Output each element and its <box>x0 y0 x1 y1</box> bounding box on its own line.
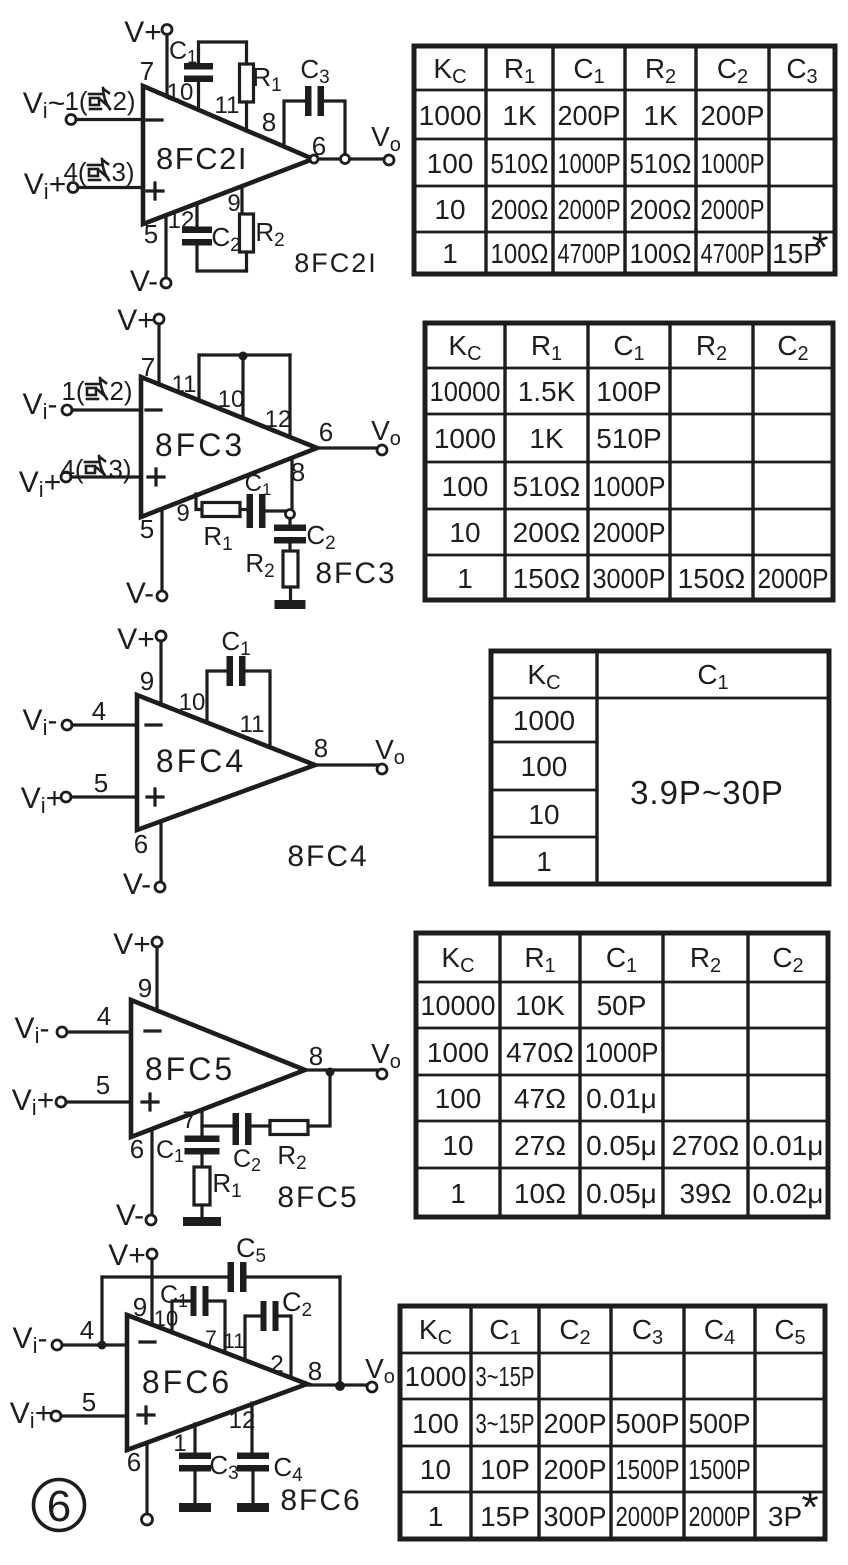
inverting input marker <box>146 723 161 726</box>
svg-text:8: 8 <box>309 1041 323 1071</box>
svg-text:1: 1 <box>442 238 458 269</box>
svg-text:3): 3) <box>108 454 131 484</box>
svg-text:4(: 4( <box>60 454 83 484</box>
ground C4 <box>237 1503 269 1512</box>
svg-text:4: 4 <box>97 1001 111 1031</box>
svg-text:4(: 4( <box>63 157 86 187</box>
Vi+ input terminal <box>68 183 78 193</box>
svg-text:8FC5: 8FC5 <box>277 1181 358 1214</box>
svg-text:Vi​-: Vi​- <box>23 704 58 740</box>
op-amp U2 8FC3 <box>141 377 317 517</box>
svg-text:0.01μ: 0.01μ <box>586 1083 657 1114</box>
svg-text:V-: V- <box>126 577 154 610</box>
svg-text:8FC3: 8FC3 <box>155 427 245 463</box>
wire Vi- to inverting input <box>72 408 141 411</box>
resistor R2 <box>283 551 298 587</box>
V- terminal <box>161 278 171 288</box>
svg-text:12: 12 <box>265 406 292 433</box>
output terminal Vo <box>384 155 394 165</box>
junction output node <box>335 1381 345 1391</box>
svg-text:5: 5 <box>140 514 154 544</box>
Vi- input terminal <box>62 405 72 415</box>
svg-text:5: 5 <box>82 1387 96 1417</box>
svg-text:2000P: 2000P <box>616 1501 680 1532</box>
svg-text:8FC5: 8FC5 <box>145 1051 235 1087</box>
capacitor C1 <box>191 1286 197 1316</box>
svg-text:200Ω: 200Ω <box>513 517 581 548</box>
wire C2-R2 bottom loop <box>197 243 247 271</box>
resistor R1 <box>240 64 254 102</box>
capacitor C2 <box>182 227 212 234</box>
svg-text:1K: 1K <box>502 100 537 131</box>
Vi+ input terminal <box>56 1097 66 1107</box>
svg-text:1000: 1000 <box>427 1037 489 1068</box>
wire top compensation loop <box>199 353 290 356</box>
svg-text:200P: 200P <box>544 1408 607 1439</box>
inverting input marker <box>140 1340 155 1343</box>
svg-text:1K: 1K <box>643 100 678 131</box>
svg-text:3P: 3P <box>768 1501 802 1532</box>
Vi- input terminal <box>62 720 72 730</box>
wire C2 to R2 <box>252 1124 270 1127</box>
Vi- input terminal <box>66 115 76 125</box>
svg-text:V+: V+ <box>117 304 155 337</box>
node output junction <box>341 155 350 164</box>
svg-text:Vi​-: Vi​- <box>15 1012 50 1048</box>
capacitor C1 <box>227 656 234 686</box>
non-inverting input marker <box>147 183 163 199</box>
svg-text:9: 9 <box>138 973 152 1003</box>
svg-text:9: 9 <box>133 1292 147 1322</box>
wire pin 6 to V- <box>150 1129 153 1215</box>
svg-text:Vi​-: Vi​- <box>13 1322 48 1358</box>
svg-text:8: 8 <box>314 733 328 763</box>
svg-text:470Ω: 470Ω <box>506 1037 574 1068</box>
svg-text:10: 10 <box>167 79 194 106</box>
svg-text:8FC6: 8FC6 <box>280 1484 361 1517</box>
op-amp U1 8FC2I <box>143 86 313 224</box>
svg-text:47Ω: 47Ω <box>514 1083 566 1114</box>
wire output <box>305 1068 377 1071</box>
inverting input marker <box>146 408 161 411</box>
svg-text:2000P: 2000P <box>558 194 621 225</box>
wire C1 to node <box>266 509 286 512</box>
wire C1 to pin 10 <box>197 79 200 110</box>
node pin8/C1/C2 <box>286 510 295 519</box>
svg-text:4700P: 4700P <box>701 238 765 269</box>
svg-text:*: * <box>801 1483 818 1532</box>
svg-text:5: 5 <box>96 1070 110 1100</box>
svg-text:2: 2 <box>270 1351 283 1378</box>
output terminal Vo <box>377 445 387 455</box>
inverting input marker <box>145 1029 160 1032</box>
svg-text:10: 10 <box>442 1130 473 1161</box>
svg-text:100Ω: 100Ω <box>491 238 549 269</box>
wire Vi- to inverting input <box>67 1030 131 1033</box>
Vi+ input terminal <box>61 792 71 802</box>
svg-text:4: 4 <box>92 696 106 726</box>
wire pin 5 to V- <box>160 509 163 591</box>
svg-text:150Ω: 150Ω <box>678 563 746 594</box>
svg-text:500P: 500P <box>616 1408 680 1439</box>
page number 6 <box>34 1480 85 1531</box>
svg-text:V-: V- <box>116 1199 144 1232</box>
output terminal Vo <box>367 1382 377 1392</box>
capacitor C1 <box>247 494 254 528</box>
svg-text:8FC2I: 8FC2I <box>294 248 378 278</box>
svg-text:8FC3: 8FC3 <box>315 557 396 590</box>
svg-text:7: 7 <box>182 1107 195 1134</box>
table 8FC3 compensation values <box>425 323 833 600</box>
svg-text:0.01μ: 0.01μ <box>753 1130 824 1161</box>
wire C3 to ground <box>193 1471 196 1503</box>
capacitor C5 <box>228 1262 235 1292</box>
wire C4 to ground <box>251 1471 254 1503</box>
V+ terminal <box>156 631 166 641</box>
wire pin 11 leg <box>197 355 200 401</box>
svg-text:0.02μ: 0.02μ <box>753 1178 824 1209</box>
svg-text:10P: 10P <box>480 1454 530 1485</box>
wire Vi- to inverting input <box>62 1343 127 1346</box>
svg-text:2): 2) <box>109 376 132 406</box>
svg-text:10: 10 <box>528 799 559 830</box>
wire V+ to pin 9 <box>150 1259 153 1325</box>
wire R1 to ground <box>200 1205 203 1217</box>
pin 6 node <box>310 155 318 163</box>
Vi- input terminal <box>57 1027 67 1037</box>
V+ terminal <box>162 25 172 35</box>
junction input node <box>98 1341 107 1350</box>
svg-text:4: 4 <box>80 1315 94 1345</box>
svg-text:1500P: 1500P <box>616 1454 680 1485</box>
svg-text:100: 100 <box>412 1408 459 1439</box>
wire C3 to output node <box>324 101 345 155</box>
svg-text:7: 7 <box>141 352 155 382</box>
svg-text:1000: 1000 <box>405 1361 467 1392</box>
svg-text:500P: 500P <box>689 1408 751 1439</box>
ground <box>183 1217 221 1226</box>
V- terminal <box>157 591 167 601</box>
svg-text:2000P: 2000P <box>758 563 829 594</box>
capacitor C1 <box>184 63 213 70</box>
svg-text:6: 6 <box>127 1447 141 1477</box>
wire R1 top lead <box>245 42 248 64</box>
svg-text:8FC4: 8FC4 <box>156 743 246 779</box>
resistor R2 <box>270 1121 308 1135</box>
wire Vi+ to non-inverting input <box>71 475 141 478</box>
svg-text:510Ω: 510Ω <box>630 148 692 179</box>
svg-text:100: 100 <box>521 751 568 782</box>
wire pin 9 to R1 <box>196 494 202 510</box>
capacitor C2 <box>274 525 306 532</box>
pin 6 terminal <box>142 1514 153 1525</box>
wire pin 12 leg <box>288 355 291 437</box>
svg-text:10: 10 <box>179 689 206 716</box>
wire C1 top lead <box>197 42 200 66</box>
op-amp U3 8FC4 <box>137 695 315 830</box>
svg-text:1: 1 <box>536 846 552 877</box>
svg-text:10: 10 <box>434 194 465 225</box>
Vi- input terminal <box>52 1340 62 1350</box>
wire pin 7 leg <box>200 1110 203 1135</box>
svg-text:V+: V+ <box>124 16 162 49</box>
wire C5 to input node <box>100 1277 103 1342</box>
svg-text:V+: V+ <box>108 1239 146 1272</box>
wire Vi- to inverting input <box>72 723 137 726</box>
non-inverting input marker <box>147 789 163 805</box>
svg-text:1(: 1( <box>64 86 87 116</box>
resistor R1 <box>202 503 240 517</box>
wire pin 6 leg <box>145 1443 148 1514</box>
ground <box>275 600 306 609</box>
svg-text:1(: 1( <box>61 376 84 406</box>
svg-text:2000P: 2000P <box>593 517 666 548</box>
svg-text:8FC6: 8FC6 <box>142 1364 232 1400</box>
svg-text:1000: 1000 <box>513 705 575 736</box>
wire pin 5 to V- <box>164 216 167 278</box>
svg-text:15P: 15P <box>480 1501 530 1532</box>
svg-text:510Ω: 510Ω <box>491 148 549 179</box>
ground C3 <box>179 1503 211 1512</box>
wire C5 left <box>102 1275 227 1278</box>
svg-text:10: 10 <box>420 1454 451 1485</box>
capacitor C2 <box>233 1113 240 1145</box>
svg-text:510Ω: 510Ω <box>513 471 581 502</box>
svg-text:6: 6 <box>312 131 326 161</box>
svg-text:150Ω: 150Ω <box>513 563 581 594</box>
wire pin 11 to C2 <box>245 1316 260 1359</box>
svg-text:39Ω: 39Ω <box>679 1178 731 1209</box>
wire R2 bottom lead <box>245 252 248 271</box>
svg-text:50P: 50P <box>597 990 647 1021</box>
svg-text:100: 100 <box>442 471 489 502</box>
wire Vi+ to non-inverting input <box>71 795 137 798</box>
svg-text:11: 11 <box>215 92 240 119</box>
svg-text:510P: 510P <box>596 423 661 454</box>
wire R1 to C1 <box>240 508 246 511</box>
non-inverting input marker <box>148 469 164 485</box>
Vi+ input terminal <box>61 472 71 482</box>
svg-text:11: 11 <box>240 711 265 738</box>
svg-text:11: 11 <box>223 1330 245 1353</box>
wire V+ to pin 9 <box>155 947 158 1010</box>
svg-text:V+: V+ <box>117 623 155 656</box>
wire C1 to pin 7 <box>209 1301 225 1351</box>
non-inverting input marker <box>142 1094 158 1110</box>
svg-text:V-: V- <box>130 265 158 298</box>
wire C5 to output node <box>338 1277 341 1382</box>
wire output <box>317 446 377 449</box>
wire output <box>315 763 377 766</box>
svg-text:0.05μ: 0.05μ <box>586 1178 657 1209</box>
svg-text:10: 10 <box>154 1306 178 1331</box>
table 8FC6 compensation values <box>400 1306 825 1539</box>
svg-text:3): 3) <box>111 157 134 187</box>
wire Vi+ to non-inverting input <box>61 1414 127 1417</box>
svg-text:1: 1 <box>428 1501 444 1532</box>
output terminal Vo <box>377 1069 387 1079</box>
wire Vi- to inverting input <box>76 118 143 121</box>
svg-text:3000P: 3000P <box>593 563 666 594</box>
wire Vi+ to non-inverting input <box>66 1100 131 1103</box>
svg-text:1500P: 1500P <box>689 1454 751 1485</box>
svg-text:6: 6 <box>319 417 333 447</box>
svg-text:3~15P: 3~15P <box>476 1408 535 1439</box>
svg-text:V-: V- <box>123 868 151 901</box>
svg-text:11: 11 <box>172 371 197 398</box>
op-amp U4 8FC5 <box>131 1000 305 1137</box>
svg-text:*: * <box>811 223 828 272</box>
svg-text:1000P: 1000P <box>701 148 765 179</box>
svg-text:5: 5 <box>144 219 158 249</box>
wire pin 8 to C3 <box>284 101 305 147</box>
svg-text:6: 6 <box>130 1134 144 1164</box>
V- terminal <box>155 882 165 892</box>
wire C1 to R1 <box>200 1153 203 1167</box>
wire node to C2 <box>288 519 291 526</box>
svg-text:8: 8 <box>262 107 276 137</box>
svg-text:10000: 10000 <box>430 376 501 407</box>
svg-text:4700P: 4700P <box>558 238 621 269</box>
capacitor C4 <box>237 1453 269 1460</box>
wire output <box>318 157 384 160</box>
wire R2 to output junction <box>308 1077 330 1126</box>
svg-text:10K: 10K <box>515 990 565 1021</box>
svg-text:1.5K: 1.5K <box>518 376 576 407</box>
svg-text:3~15P: 3~15P <box>476 1361 535 1392</box>
svg-text:10000: 10000 <box>421 990 496 1021</box>
svg-text:2000P: 2000P <box>689 1501 751 1532</box>
svg-text:27Ω: 27Ω <box>514 1130 566 1161</box>
junction top loop <box>239 352 248 361</box>
svg-text:2): 2) <box>112 86 135 116</box>
svg-text:300P: 300P <box>544 1501 607 1532</box>
svg-text:1: 1 <box>450 1178 466 1209</box>
svg-text:3.9P~30P: 3.9P~30P <box>630 774 784 811</box>
wire R1 to pin 11 <box>245 102 248 131</box>
svg-text:7: 7 <box>140 56 154 86</box>
svg-text:100: 100 <box>427 148 474 179</box>
wire C2 to pin 2 <box>279 1316 291 1376</box>
output junction <box>326 1068 335 1077</box>
wire pin 12 leg <box>250 1403 253 1454</box>
wire pin 6 to V- <box>159 821 162 882</box>
wire pin 9 to R2 <box>240 186 243 215</box>
table 8FC4 compensation values <box>491 651 829 884</box>
svg-text:100: 100 <box>435 1083 482 1114</box>
svg-text:10: 10 <box>449 517 480 548</box>
wire pin 7 to C2 <box>202 1124 232 1127</box>
svg-text:9: 9 <box>176 500 189 527</box>
wire pin 10 to C1 <box>207 671 226 722</box>
svg-text:8FC4: 8FC4 <box>287 840 368 873</box>
svg-text:200P: 200P <box>544 1454 607 1485</box>
table 8FC5 compensation values <box>416 933 828 1217</box>
capacitor C2 <box>261 1301 267 1331</box>
svg-text:1000P: 1000P <box>593 471 666 502</box>
svg-text:V+: V+ <box>113 928 151 961</box>
wire pin 8 leg <box>290 459 293 510</box>
wire Vi+ to non-inverting input <box>78 186 143 189</box>
svg-text:9: 9 <box>140 666 154 696</box>
svg-text:1000P: 1000P <box>558 148 621 179</box>
svg-text:10: 10 <box>218 386 245 413</box>
wire C1/R1 top loop <box>199 40 247 43</box>
svg-text:200Ω: 200Ω <box>630 194 692 225</box>
svg-text:200P: 200P <box>558 100 621 131</box>
svg-text:6: 6 <box>47 1482 71 1531</box>
V+ terminal <box>152 937 162 947</box>
wire output <box>307 1383 367 1386</box>
capacitor C3 <box>305 86 312 116</box>
wire pin 10 leg <box>241 356 244 418</box>
svg-text:8FC2I: 8FC2I <box>156 141 248 176</box>
non-inverting input marker <box>138 1407 154 1423</box>
wire pin 12 to C2 <box>195 206 198 227</box>
V+ terminal <box>154 314 164 324</box>
svg-text:270Ω: 270Ω <box>672 1130 740 1161</box>
capacitor C1 <box>185 1136 220 1143</box>
resistor R1 <box>194 1167 210 1205</box>
svg-text:1000: 1000 <box>419 100 482 131</box>
svg-text:1K: 1K <box>529 423 564 454</box>
svg-text:0.05μ: 0.05μ <box>586 1130 657 1161</box>
svg-text:Vi​-: Vi​- <box>23 388 58 424</box>
wire C2 to R2 <box>288 543 291 551</box>
wire C5 right <box>247 1275 340 1278</box>
svg-text:2000P: 2000P <box>701 194 765 225</box>
resistor R2 <box>240 214 254 252</box>
svg-text:7: 7 <box>205 1327 217 1350</box>
svg-text:1000: 1000 <box>434 423 496 454</box>
svg-text:5: 5 <box>94 768 108 798</box>
svg-text:8: 8 <box>308 1356 322 1386</box>
V- terminal <box>146 1215 156 1225</box>
capacitor C3 <box>179 1453 211 1460</box>
svg-text:6: 6 <box>134 829 148 859</box>
V+ terminal <box>147 1249 157 1259</box>
wire V+ to pin 9 <box>159 641 162 705</box>
svg-text:1000P: 1000P <box>585 1037 659 1068</box>
wire pin 1 leg <box>193 1424 196 1454</box>
output terminal Vo <box>377 764 387 774</box>
wire R2 to ground <box>289 587 292 600</box>
wire C1 to pin 11 <box>246 671 270 747</box>
svg-text:200Ω: 200Ω <box>491 194 549 225</box>
svg-text:200P: 200P <box>701 100 765 131</box>
wire V+ to pin 7 <box>165 35 168 98</box>
wire V+ to pin 7 <box>157 324 160 385</box>
op-amp U5 8FC6 <box>127 1315 307 1450</box>
table 8FC2I compensation values <box>414 46 835 274</box>
svg-text:1: 1 <box>457 563 473 594</box>
inverting input marker <box>147 118 162 121</box>
svg-text:100Ω: 100Ω <box>630 238 692 269</box>
Vi+ input terminal <box>51 1411 61 1421</box>
svg-text:100P: 100P <box>596 376 661 407</box>
wire pin 10 to C1 <box>172 1301 190 1332</box>
svg-text:10Ω: 10Ω <box>514 1178 566 1209</box>
